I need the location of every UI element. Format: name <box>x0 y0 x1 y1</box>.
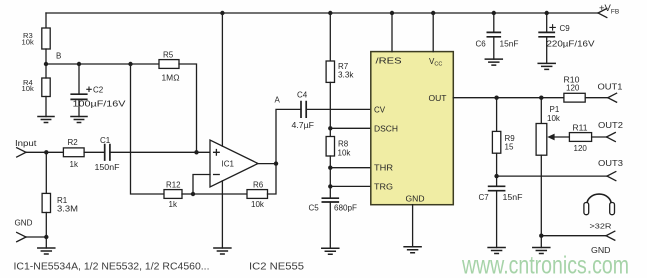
svg-text:150nF: 150nF <box>95 163 120 172</box>
resistor R4 <box>22 78 51 97</box>
svg-text:10k: 10k <box>22 38 34 47</box>
capacitor C2 polarity mark <box>87 87 91 91</box>
svg-text:100µF/16V: 100µF/16V <box>73 100 127 109</box>
potentiometer P1 <box>536 105 561 155</box>
svg-text:120: 120 <box>566 83 580 92</box>
wire TRG pin <box>330 185 371 187</box>
wire R5 to noninverting input <box>179 64 197 152</box>
svg-text:GND: GND <box>406 195 425 204</box>
wire R6 to output <box>268 164 277 194</box>
svg-text:C7: C7 <box>479 193 490 202</box>
P1 wiper arrow <box>547 134 569 141</box>
ground under C5 <box>321 248 340 254</box>
wire R12 to feedback node <box>182 193 193 195</box>
wire top rail to R3 <box>45 13 47 28</box>
junction feedback node <box>191 192 195 196</box>
resistor R2 <box>63 138 84 169</box>
wire OUT to P1 <box>540 98 542 124</box>
junction rail C6 <box>492 11 496 15</box>
svg-text:1k: 1k <box>70 160 79 169</box>
node B junction <box>44 52 62 67</box>
svg-text:IC1: IC1 <box>222 160 235 169</box>
wire R11 to OUT2 <box>592 136 607 138</box>
label GND input <box>15 218 33 227</box>
resistor R1 <box>42 193 78 213</box>
svg-text:CV: CV <box>374 106 386 115</box>
terminal GND input <box>17 232 26 241</box>
svg-text:THR: THR <box>374 164 393 173</box>
junction rail /RES <box>390 11 394 15</box>
op-amp IC1 <box>210 140 258 187</box>
junction R1 / ground <box>44 235 48 239</box>
wire C1 to op-amp noninverting input <box>110 151 210 153</box>
svg-text:15nF: 15nF <box>500 39 519 48</box>
svg-text:15nF: 15nF <box>503 193 523 202</box>
resistor R8 <box>326 137 351 158</box>
wire to left ground <box>45 237 47 248</box>
ground under C2 <box>70 117 88 123</box>
svg-text:TRG: TRG <box>374 182 393 191</box>
junction R5 bias / +input <box>194 150 198 154</box>
svg-text:C2: C2 <box>93 86 104 95</box>
svg-text:R9: R9 <box>505 134 516 143</box>
junction supply rail / op-amp <box>220 11 224 15</box>
junction rail C9 <box>545 11 549 15</box>
svg-text:IC2 NE555: IC2 NE555 <box>249 262 304 273</box>
terminal OUT1 <box>608 93 617 102</box>
svg-text:120: 120 <box>574 144 588 153</box>
ground under op-amp <box>213 248 232 254</box>
wire node B to R4 <box>45 64 47 78</box>
wire R7 to DSCH node <box>329 82 331 136</box>
wire C7 to ground <box>496 191 498 248</box>
wire op-amp positive supply <box>221 13 223 146</box>
svg-text:680pF: 680pF <box>334 204 357 213</box>
junction OUT / R9 <box>494 96 498 100</box>
svg-text:3.3M: 3.3M <box>57 205 78 214</box>
resistor R12 <box>164 180 182 209</box>
headphone symbol <box>584 194 615 230</box>
wire R2 to C1 <box>84 151 105 153</box>
resistor R6 <box>247 180 268 209</box>
svg-text:C1: C1 <box>100 136 111 145</box>
terminal OUT2 <box>607 133 616 142</box>
junction output node <box>274 161 278 165</box>
wire output up to node A <box>276 109 301 163</box>
wire OUT3 row <box>497 175 607 177</box>
IC2 NE555 body <box>371 52 454 205</box>
ground under C7 <box>487 248 506 254</box>
junction TRG node <box>328 184 332 188</box>
junction rail / R7 <box>328 11 332 15</box>
svg-text:R11: R11 <box>573 123 589 132</box>
junction node B / C2 <box>77 62 81 66</box>
wire R1 to GND row <box>45 213 47 238</box>
junction OUT3 node <box>494 174 498 178</box>
junction DSCH node <box>328 126 332 130</box>
label GND right <box>591 246 611 255</box>
label OUT3 <box>598 159 624 168</box>
label OUT1 <box>598 82 624 91</box>
wire OUT to R9 <box>496 98 498 132</box>
svg-text:10k: 10k <box>547 114 561 123</box>
junction input / R1 <box>44 150 48 154</box>
capacitor C4 <box>292 91 315 131</box>
ground left bottom <box>37 248 56 254</box>
wire common to ground <box>540 236 542 248</box>
wire feedback node to R6 <box>193 193 247 195</box>
ground under IC2 <box>403 247 422 253</box>
resistor R5 <box>159 51 180 83</box>
wire Input to junction <box>26 151 63 153</box>
resistor R11 <box>569 123 591 153</box>
junction common ground node <box>539 234 543 238</box>
wire op-amp negative supply <box>221 181 223 248</box>
wire rail to C9 <box>546 13 548 32</box>
wire C5 to ground <box>329 202 331 248</box>
svg-text:/RES: /RES <box>376 57 402 66</box>
svg-text:1MΩ: 1MΩ <box>162 74 180 83</box>
svg-text:B: B <box>56 52 61 61</box>
terminal OUT3 <box>607 172 616 181</box>
wire R3 to node B <box>45 49 47 64</box>
node A label <box>275 95 281 104</box>
junction THR node <box>328 166 332 170</box>
svg-text:1k: 1k <box>169 200 178 209</box>
svg-text:OUT1: OUT1 <box>598 82 624 91</box>
wire C2 to ground <box>78 99 80 116</box>
svg-text:C9: C9 <box>560 24 571 33</box>
wire common to GND terminal <box>541 235 606 237</box>
wire P1 bottom to common <box>540 155 542 236</box>
wire node B row <box>46 63 159 65</box>
svg-text:OUT: OUT <box>429 94 447 103</box>
svg-text:C5: C5 <box>309 204 320 213</box>
resistor R7 <box>326 61 354 82</box>
label +VFB <box>599 3 619 16</box>
wire Vcc pin to rail <box>432 13 434 52</box>
svg-text:R6: R6 <box>253 180 264 189</box>
label OUT2 <box>598 121 624 130</box>
capacitor C9 polarity mark <box>550 25 555 30</box>
capacitor C2 <box>70 86 126 109</box>
svg-text:>32R: >32R <box>590 221 613 230</box>
svg-text:R12: R12 <box>166 180 181 189</box>
wire C6 to ground <box>493 37 495 59</box>
wire rail to R7 <box>329 13 331 61</box>
capacitor C9 <box>538 24 595 49</box>
capacitor C7 <box>479 186 523 202</box>
wire DSCH pin <box>330 127 371 129</box>
svg-text:R5: R5 <box>163 51 174 60</box>
wire input node to R1 <box>45 152 47 193</box>
svg-text:GND: GND <box>591 246 611 255</box>
svg-text:10k: 10k <box>251 200 265 209</box>
junction OUT / P1 <box>539 96 543 100</box>
svg-text:R2: R2 <box>68 138 79 147</box>
wire /RES pin to rail <box>391 13 393 52</box>
wire R8 to THR node <box>329 156 331 198</box>
caption IC1 types <box>14 262 210 273</box>
svg-text:3.3k: 3.3k <box>338 70 355 79</box>
svg-text:DSCH: DSCH <box>374 124 398 133</box>
wire C4 to CV pin <box>306 108 371 110</box>
wire R9 to OUT3 node <box>496 153 498 186</box>
svg-text:A: A <box>275 95 281 104</box>
wire THR pin <box>330 167 371 169</box>
wire inverting input <box>193 175 210 195</box>
terminal GND right <box>606 231 615 240</box>
svg-text:C4: C4 <box>297 91 308 100</box>
terminal Input <box>17 148 26 157</box>
wire rail to C6 <box>493 13 495 32</box>
svg-text:15: 15 <box>505 143 514 152</box>
svg-text:IC1-NE5534A, 1/2 NE5532, 1/2 R: IC1-NE5534A, 1/2 NE5532, 1/2 RC4560... <box>14 262 210 273</box>
capacitor C5 <box>309 198 358 213</box>
capacitor C1 <box>95 136 120 172</box>
watermark www.cntronics.com <box>461 252 629 278</box>
svg-text:GND: GND <box>15 218 33 227</box>
junction rail Vcc <box>431 11 435 15</box>
svg-text:220µF/16V: 220µF/16V <box>547 39 596 48</box>
junction node B / bias line <box>128 62 132 66</box>
terminal +VFB supply arrow <box>598 9 607 18</box>
wire GND terminal to R1 <box>26 236 46 238</box>
capacitor C6 <box>476 32 519 48</box>
label Input <box>15 139 37 148</box>
svg-text:10k: 10k <box>338 148 352 157</box>
caption IC2 type <box>249 262 304 273</box>
svg-text:OUT3: OUT3 <box>598 159 624 168</box>
resistor R3 <box>22 28 51 49</box>
wire OUT pin row <box>453 97 564 99</box>
svg-text:www.cntronics.com: www.cntronics.com <box>461 252 629 278</box>
wire node B to C2 <box>78 64 80 94</box>
resistor R10 <box>564 76 586 103</box>
ground under R4 <box>37 117 55 123</box>
wire R10 to OUT1 <box>585 97 608 99</box>
resistor R9 <box>492 131 515 153</box>
ground under C9 <box>537 63 556 69</box>
wire top supply rail <box>46 12 598 14</box>
wire R4 to ground <box>45 97 47 117</box>
svg-text:C6: C6 <box>476 39 487 48</box>
wire 555 GND pin <box>412 205 414 247</box>
wire C9 to ground <box>546 37 548 64</box>
ground under C6 <box>485 59 504 65</box>
wire bias node B down <box>131 64 165 194</box>
svg-text:Input: Input <box>15 139 37 148</box>
ground under P1 common <box>532 248 551 254</box>
svg-text:10k: 10k <box>22 84 34 93</box>
svg-text:P1: P1 <box>550 105 560 114</box>
svg-text:4.7µF: 4.7µF <box>292 121 315 130</box>
wire op-amp output <box>258 163 276 165</box>
svg-text:OUT2: OUT2 <box>598 121 624 130</box>
